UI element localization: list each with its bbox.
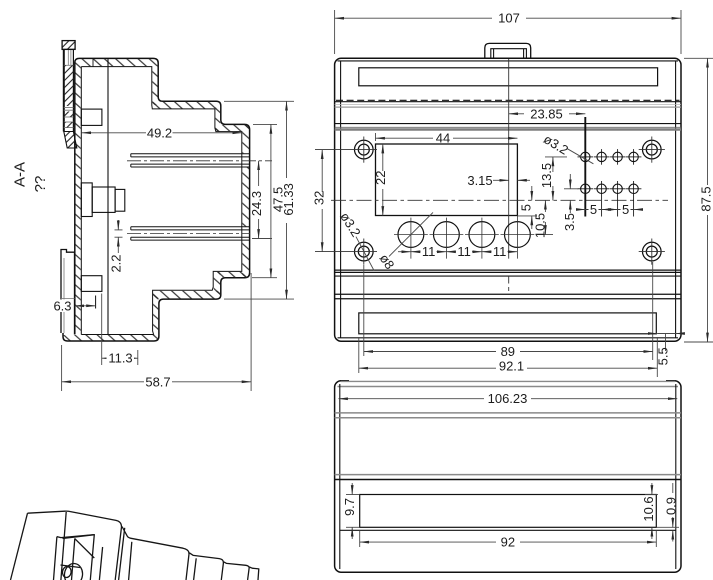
dim 5 vertical — [517, 186, 537, 229]
svg-text:22: 22 — [373, 170, 388, 184]
dim 11.3 — [102, 294, 138, 366]
svg-text:??: ?? — [32, 176, 49, 193]
wall hatch back mid — [242, 167, 249, 226]
vertical centerline — [508, 59, 510, 291]
label dia8 — [377, 212, 433, 272]
display window — [376, 144, 518, 216]
panel top gray band — [335, 128, 681, 130]
svg-text:11: 11 — [422, 244, 436, 259]
wall hatch shelf2 — [215, 125, 249, 131]
lid faint line — [335, 103, 681, 105]
wall hatch back lower — [242, 241, 249, 278]
svg-text:2.2: 2.2 — [109, 254, 124, 272]
dim 13.5 — [539, 157, 567, 200]
wall hatch step1 — [152, 67, 157, 106]
ISO-VIEW — [11, 511, 259, 580]
bv recess base line — [340, 529, 676, 531]
bus connector tip — [115, 189, 125, 211]
dim 6.3 — [53, 298, 96, 313]
dim 23.85 — [509, 106, 586, 121]
svg-text:11: 11 — [493, 244, 507, 259]
clip inner line — [63, 258, 65, 333]
dim 0.9 — [656, 483, 679, 542]
rail gray lines — [64, 108, 74, 132]
terminal hole r1c1 — [578, 149, 594, 165]
section inner contour — [81, 67, 242, 335]
horizontal centerline — [331, 199, 668, 201]
iso fifth edge — [249, 567, 258, 580]
wall hatch bshelf1 — [215, 272, 250, 277]
section outer contour — [63, 58, 250, 341]
rail hatch c — [64, 122, 74, 128]
wall hatch step2 — [215, 102, 220, 131]
big hole 1 — [394, 218, 428, 259]
lower slot lines — [131, 227, 250, 240]
bv recess — [360, 495, 657, 528]
terminal hole r2c3 — [610, 181, 626, 217]
enclosure outer body — [335, 58, 681, 341]
rail taper — [64, 132, 77, 149]
label window — [359, 68, 658, 86]
iso window right wall — [99, 547, 102, 580]
right inner edge — [675, 62, 677, 339]
bv band line b — [335, 417, 681, 419]
base band line b — [335, 298, 681, 300]
svg-text:5: 5 — [622, 202, 629, 217]
terminal hole r2c2 — [594, 181, 610, 217]
bv top edge gray — [341, 380, 675, 382]
svg-text:24.3: 24.3 — [249, 191, 264, 216]
dim 5.5 — [649, 334, 684, 366]
lid gray line — [335, 106, 681, 108]
dim 3.15 — [467, 173, 530, 188]
left inner edge — [340, 62, 342, 339]
iso window opening — [54, 535, 95, 580]
terminal hole r2c4 — [626, 181, 642, 217]
label dia3.2 bottom-left — [337, 209, 374, 270]
svg-text:32: 32 — [312, 191, 327, 205]
lower band line — [335, 275, 681, 277]
lid parting mark — [92, 58, 94, 66]
iso third block — [189, 553, 223, 580]
rail hatch b — [64, 112, 74, 118]
mid band line — [335, 123, 681, 125]
svg-text:3.15: 3.15 — [467, 173, 492, 188]
panel top thin line — [335, 126, 681, 128]
clip step line — [61, 298, 75, 300]
svg-text:5.5: 5.5 — [656, 347, 671, 365]
dim 11 x3 — [398, 244, 517, 259]
corner screw BR — [639, 239, 665, 265]
dim 32 — [312, 150, 327, 252]
iso window diagonal — [63, 535, 95, 558]
bus connector neck — [81, 183, 92, 217]
big hole 3 — [465, 218, 499, 259]
iso third block inner — [194, 558, 197, 580]
DIN latch tab inner — [491, 49, 527, 59]
dim 58.7 — [62, 273, 252, 391]
clip lower strip — [61, 250, 75, 335]
corner screw TR — [639, 137, 665, 163]
upper slot centerline — [127, 160, 272, 162]
FRONT-VIEW-DIMS — [312, 10, 713, 377]
DIN latch tab outer — [485, 43, 531, 58]
inner rib line — [95, 296, 97, 309]
svg-text:A-A: A-A — [12, 162, 29, 187]
svg-text:92.1: 92.1 — [499, 358, 524, 373]
dim 47.5 — [252, 124, 285, 277]
big hole 4 — [501, 216, 535, 259]
svg-text:11.3: 11.3 — [108, 351, 132, 366]
dim 61.33 — [224, 101, 296, 299]
corner screw BL — [315, 239, 377, 265]
dim 106.23 — [339, 391, 678, 406]
svg-text:92: 92 — [501, 535, 515, 550]
SIDE-VIEW-DIMS — [12, 101, 297, 391]
svg-text:10.5: 10.5 — [533, 213, 548, 238]
FRONT-VIEW — [315, 43, 681, 341]
svg-text:13.5: 13.5 — [539, 163, 554, 188]
bottom view body — [335, 381, 681, 572]
bottom inner edge — [338, 337, 679, 339]
svg-text:47.5: 47.5 — [270, 187, 285, 212]
iso fourth block — [224, 562, 250, 580]
iso cylinder inner — [62, 566, 72, 578]
wall hatch shelf1 — [152, 102, 220, 109]
svg-text:106.23: 106.23 — [488, 391, 528, 406]
terminal hole r1c4 — [626, 149, 642, 165]
svg-text:11: 11 — [457, 244, 471, 259]
corner screw TL — [315, 137, 377, 163]
BOTTOM-VIEW — [335, 380, 681, 573]
dim 10.5 — [533, 200, 554, 238]
dim 9.7 — [342, 483, 360, 539]
wall hatch bstep2 — [214, 272, 221, 299]
wall hatch bstep3 — [153, 293, 158, 335]
bv band line d — [335, 479, 681, 481]
BOTTOM-VIEW-DIMS — [339, 391, 680, 549]
terminal hole r1c2 — [594, 149, 610, 165]
bottom recess — [359, 313, 657, 334]
terminal hole r2c1 — [578, 181, 594, 197]
dim 44 — [376, 131, 518, 146]
iso top outline — [28, 511, 122, 580]
label dia3.2 top — [541, 131, 593, 163]
dim 10.6 — [641, 483, 658, 539]
lid bottom line — [335, 101, 681, 103]
iso shelf line — [61, 565, 81, 568]
svg-text:0.9: 0.9 — [664, 497, 679, 515]
svg-text:3.5: 3.5 — [562, 213, 577, 231]
lower inner rect — [81, 276, 102, 292]
svg-text:89: 89 — [501, 344, 515, 359]
svg-text:10.6: 10.6 — [641, 496, 656, 521]
terminal column line — [584, 117, 586, 217]
svg-text:58.7: 58.7 — [145, 374, 170, 389]
dim 24.3 — [249, 161, 272, 239]
wall hatch bshelf2 — [153, 291, 220, 299]
SIDE-VIEW — [61, 41, 272, 341]
upper slot lines — [131, 154, 250, 167]
rail upper body outline — [62, 49, 75, 131]
wall hatch back upper — [242, 125, 249, 153]
iso mid block — [122, 527, 189, 580]
rail cap — [62, 41, 75, 50]
dim 89 — [364, 262, 653, 360]
bv left inner edge — [339, 384, 341, 569]
svg-text:44: 44 — [436, 131, 450, 146]
dim 87.5 — [684, 58, 713, 342]
iso mid block inner — [129, 542, 132, 580]
svg-text:23.85: 23.85 — [530, 106, 563, 121]
iso window mid wall — [72, 539, 75, 580]
bv top inner gray — [338, 386, 679, 388]
base band line a — [335, 293, 681, 295]
iso left edge — [11, 513, 28, 580]
terminal hole r1c3 — [610, 149, 626, 165]
svg-text:87.5: 87.5 — [699, 186, 713, 211]
hidden dashed line — [336, 99, 680, 101]
big hole 2 — [430, 218, 464, 259]
dim 107 — [335, 10, 681, 54]
iso lid right inner — [119, 528, 125, 580]
dim 22 — [373, 144, 388, 216]
dim 92.1 — [359, 337, 658, 377]
rail hatch a — [64, 65, 74, 106]
svg-text:5: 5 — [590, 202, 597, 217]
iso lid parting line — [61, 512, 66, 580]
upper inner rect — [81, 109, 102, 125]
tab wall lines — [493, 49, 495, 59]
panel bottom dark line a — [335, 269, 681, 271]
dim 5 5 columns — [577, 202, 642, 217]
lower slot centerline — [127, 233, 250, 235]
wall hatch bottomface — [64, 335, 159, 341]
dim 92 — [360, 530, 657, 549]
svg-text:9.7: 9.7 — [342, 498, 357, 516]
dim 2.2 — [109, 220, 124, 273]
bv band line c — [335, 474, 681, 476]
bv right inner edge — [675, 384, 677, 569]
inner front line — [107, 58, 109, 334]
bus connector body — [92, 187, 115, 212]
wall hatch front — [75, 60, 80, 334]
bv band line a — [335, 412, 681, 414]
svg-text:5: 5 — [519, 204, 534, 211]
iso cylinder outer — [63, 562, 84, 580]
svg-text:6.3: 6.3 — [53, 298, 71, 313]
wall hatch lid — [76, 59, 158, 66]
dim 49.2 — [82, 125, 242, 140]
top inner edge — [338, 60, 679, 62]
panel bottom dark line b — [335, 271, 681, 273]
svg-text:49.2: 49.2 — [147, 125, 172, 140]
svg-text:107: 107 — [498, 11, 520, 26]
dim 3.5 — [562, 174, 578, 231]
